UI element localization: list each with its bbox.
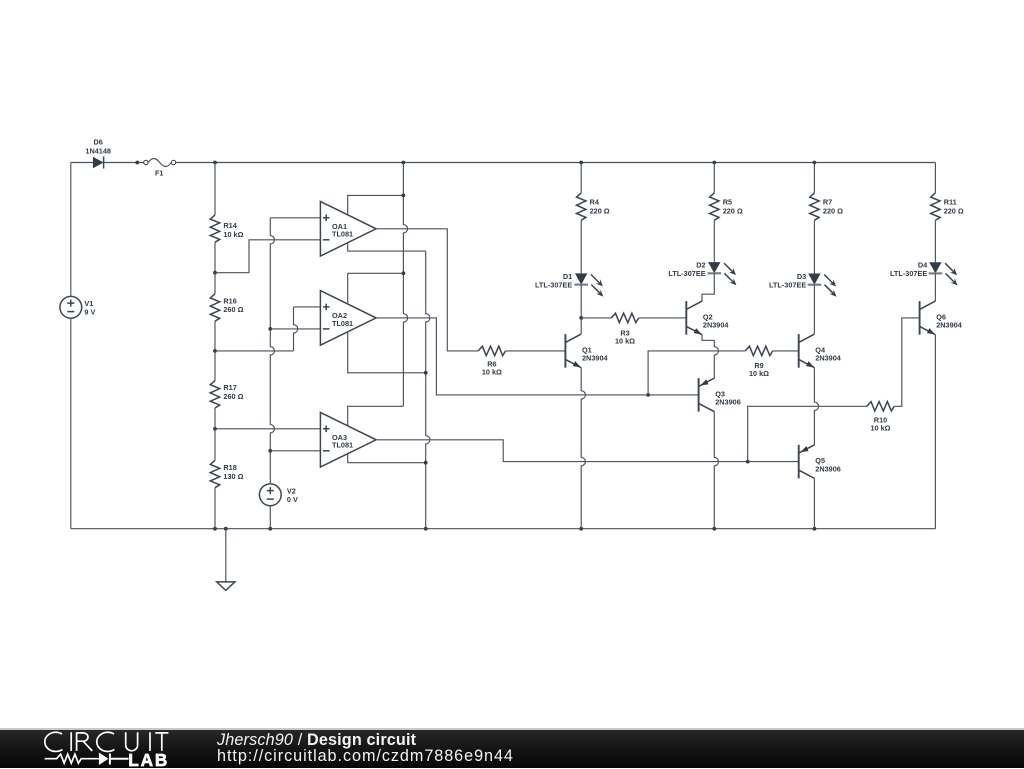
wire bottom rail xyxy=(71,528,936,530)
svg-text:TL081: TL081 xyxy=(332,230,353,239)
wire riser to OA2 + xyxy=(294,306,321,308)
svg-text:V1: V1 xyxy=(84,299,93,308)
svg-text:130 Ω: 130 Ω xyxy=(223,472,243,481)
resistor R9 10k zigzag xyxy=(745,346,772,355)
junction top rail / op-amp V+ bus xyxy=(402,161,406,165)
op-amp OA2 TL081 triangle xyxy=(320,291,376,346)
resistor R10 10k zigzag xyxy=(867,402,894,411)
junction bus / OA3 - xyxy=(268,449,272,453)
wire R18 to bottom rail xyxy=(214,488,216,529)
svg-text:R16: R16 xyxy=(223,296,236,305)
wire bus to OA1 + xyxy=(270,217,320,219)
ground symbol xyxy=(217,529,235,591)
wire op-amp reference bus xyxy=(270,218,274,484)
junction bottom rail / V2 xyxy=(268,527,272,531)
LED D1 triangle xyxy=(575,273,587,284)
LED D4 light arrows xyxy=(945,263,957,285)
wire V2 to bottom rail xyxy=(269,506,271,529)
svg-text:2N3904: 2N3904 xyxy=(815,354,842,363)
junction bus / OA2 - xyxy=(268,327,272,331)
resistor R18 130 zigzag xyxy=(210,460,219,487)
op-amp OA2 + input mark xyxy=(323,304,330,311)
wire OA2 V- pin xyxy=(348,332,426,373)
node C ladder tap 3 xyxy=(213,427,217,431)
svg-text:D6: D6 xyxy=(94,138,103,147)
wire rail to R11 xyxy=(934,163,936,193)
LED D3 triangle xyxy=(808,274,820,285)
svg-text:260 Ω: 260 Ω xyxy=(223,392,243,401)
wire ladder tap2 riser xyxy=(294,307,298,351)
CircuitLab logo xyxy=(0,729,200,769)
wire D3 to Q4 collector xyxy=(813,285,815,334)
svg-text:9 V: 9 V xyxy=(84,308,95,317)
logo schematic doodle wire xyxy=(45,754,99,763)
wire Q3 base branch to R9 xyxy=(648,351,745,395)
svg-text:R7: R7 xyxy=(823,198,832,207)
wire V1 to top rail xyxy=(70,163,72,297)
node A ladder tap 1 xyxy=(213,271,217,275)
svg-text:TL081: TL081 xyxy=(332,319,353,328)
wire Q5 collector to bottom rail xyxy=(813,478,815,528)
svg-text:10 kΩ: 10 kΩ xyxy=(749,369,769,378)
node D1/Q1/R3 xyxy=(579,316,583,320)
wire V1 to bottom rail xyxy=(70,318,72,529)
wire OA1 V+ pin xyxy=(348,195,404,215)
LED D3 cathode bar xyxy=(808,284,822,286)
voltage source V2 0V xyxy=(259,484,281,506)
svg-text:R14: R14 xyxy=(223,221,237,230)
op-amp OA2 - input mark xyxy=(323,328,330,330)
wire rail to R14 xyxy=(214,163,216,215)
resistor R6 10k zigzag xyxy=(478,346,505,355)
wire R5 to D2 xyxy=(713,220,715,262)
op-amp OA1 - input mark xyxy=(323,239,330,241)
LED D4 cathode bar xyxy=(929,272,943,274)
wire rail to R5 xyxy=(713,163,715,193)
junction bottom rail / Q5 collector xyxy=(813,527,817,531)
junction top rail / R4 xyxy=(579,161,583,165)
wire Q6 emitter to bottom rail xyxy=(934,335,936,529)
footer url text xyxy=(217,747,514,766)
op-amp OA1 + input mark xyxy=(323,215,330,222)
svg-text:10 kΩ: 10 kΩ xyxy=(223,230,243,239)
svg-text:220 Ω: 220 Ω xyxy=(944,206,964,215)
footer title text xyxy=(217,731,416,750)
diode D6 1N4148 xyxy=(93,157,104,169)
wire Q5 base branch to R10 xyxy=(748,406,867,461)
wire R3 to Q2 base xyxy=(639,317,687,319)
wire OA3 V+ pin xyxy=(348,406,404,426)
LED D2 triangle xyxy=(708,262,720,273)
op-amp OA3 TL081 triangle xyxy=(320,413,376,468)
wire OA3 V- pin xyxy=(348,454,426,463)
svg-text:R11: R11 xyxy=(944,198,957,207)
svg-text:220 Ω: 220 Ω xyxy=(723,206,743,215)
wire R17 to R18 xyxy=(214,408,216,460)
svg-text:R17: R17 xyxy=(223,383,236,392)
wire OA2 output to Q3 base xyxy=(376,318,698,395)
wire top rail left of D6 xyxy=(71,162,93,164)
junction V+ bus / OA1 xyxy=(402,194,406,198)
svg-text:2N3906: 2N3906 xyxy=(815,464,841,473)
wire Q4 emitter to Q5 emitter xyxy=(814,368,818,445)
node fuse terminal dot xyxy=(135,161,139,165)
wire op-amp V- bus xyxy=(426,251,430,529)
junction Q3 base / R9 branch xyxy=(646,393,650,397)
resistor R7 220 zigzag xyxy=(810,193,819,220)
wire rail to R7 xyxy=(813,163,815,193)
svg-text:R4: R4 xyxy=(590,198,600,207)
svg-text:LTL-307EE: LTL-307EE xyxy=(890,269,927,278)
logo diode symbol xyxy=(99,753,109,766)
wire R16 to R17 xyxy=(214,321,216,380)
LED D1 light arrows xyxy=(591,274,603,296)
footer bar xyxy=(0,728,1024,730)
wire top rail xyxy=(176,162,936,164)
junction bottom rail / R18 xyxy=(213,527,217,531)
resistor R4 220 zigzag xyxy=(577,193,586,220)
LED D3 light arrows xyxy=(824,275,836,297)
wire ladder tap3 to OA3 + xyxy=(215,428,320,430)
wire OA1 output to R6 xyxy=(376,229,478,351)
node B ladder tap 2 xyxy=(213,349,217,353)
wire D1 to Q1 collector xyxy=(580,285,582,335)
wire R14 to R16 xyxy=(214,242,216,293)
resistor R17 260 zigzag xyxy=(210,381,219,408)
wire R7 to D3 xyxy=(813,220,815,273)
voltage source V1 9V xyxy=(60,296,82,318)
wire Q3 collector to bottom rail xyxy=(714,412,718,529)
LED D2 cathode bar xyxy=(708,272,722,274)
wire Q2 emitter jog xyxy=(702,335,714,341)
junction bottom rail / ground stem xyxy=(224,527,228,531)
wire R6 to Q1 base xyxy=(506,350,566,352)
wire R9 to Q4 base xyxy=(773,350,799,352)
svg-text:R18: R18 xyxy=(223,463,236,472)
transistor Q1 2N3904 NPN xyxy=(565,334,581,368)
svg-text:2N3904: 2N3904 xyxy=(703,321,730,330)
transistor Q3 2N3906 PNP xyxy=(699,378,715,412)
resistor R16 260 zigzag xyxy=(210,294,219,321)
svg-text:10 kΩ: 10 kΩ xyxy=(615,336,635,345)
wire rail to R4 xyxy=(580,163,582,193)
junction top rail / R7 xyxy=(813,161,817,165)
svg-text:LTL-307EE: LTL-307EE xyxy=(535,280,572,289)
op-amp OA1 TL081 triangle xyxy=(320,202,376,257)
wire D2 to Q2 collector jog xyxy=(702,273,714,301)
junction V- bus / OA2 xyxy=(424,371,428,375)
wire node to R3 xyxy=(581,317,611,319)
wire ladder tap1 to OA1 - xyxy=(215,240,320,273)
wire bus to OA2 - xyxy=(270,328,320,330)
wire OA1 V- pin xyxy=(348,243,426,251)
svg-text:0 V: 0 V xyxy=(287,495,298,504)
svg-text:10 kΩ: 10 kΩ xyxy=(482,368,502,377)
junction top rail / R14 xyxy=(213,161,217,165)
wire OA3 output to Q5 base xyxy=(376,440,799,462)
resistor R5 220 zigzag xyxy=(710,193,719,220)
wire OA2 V+ pin xyxy=(348,273,404,304)
transistor Q6 2N3904 NPN xyxy=(920,301,936,335)
svg-text:R5: R5 xyxy=(723,198,732,207)
resistor R11 220 zigzag xyxy=(931,193,940,220)
junction V- bus / OA3 xyxy=(424,461,428,465)
transistor Q5 2N3906 PNP xyxy=(799,445,815,479)
junction bottom rail / Q3 collector xyxy=(712,527,716,531)
junction bottom rail / op-amp V- bus xyxy=(424,527,428,531)
wire op-amp V+ bus xyxy=(403,163,407,407)
LED D4 triangle xyxy=(929,262,941,273)
svg-text:220 Ω: 220 Ω xyxy=(590,206,610,215)
junction Q5 base / R10 branch xyxy=(746,460,750,464)
wire R11 to D4 xyxy=(934,220,936,262)
transistor Q4 2N3904 NPN xyxy=(799,334,815,368)
wire R4 to D1 xyxy=(580,220,582,273)
svg-text:V2: V2 xyxy=(287,486,296,495)
svg-text:LAB: LAB xyxy=(128,750,169,769)
svg-text:2N3906: 2N3906 xyxy=(715,398,741,407)
svg-text:F1: F1 xyxy=(155,169,164,178)
svg-text:TL081: TL081 xyxy=(332,441,353,450)
transistor Q2 2N3904 NPN xyxy=(686,301,702,335)
junction V+ bus / OA2 xyxy=(402,271,406,275)
junction top rail / R5 xyxy=(712,161,716,165)
svg-text:2N3904: 2N3904 xyxy=(582,354,609,363)
wire bus to OA3 - xyxy=(270,450,320,452)
logo word CIRCUIT (custom thin strokes) xyxy=(45,732,169,751)
svg-text:2N3904: 2N3904 xyxy=(936,321,963,330)
LED D1 cathode bar xyxy=(574,284,588,286)
wire R10 to Q6 base xyxy=(894,318,919,406)
wire D6 to F1 xyxy=(104,162,144,164)
svg-text:LTL-307EE: LTL-307EE xyxy=(668,269,705,278)
svg-text:10 kΩ: 10 kΩ xyxy=(870,424,890,433)
junction bottom rail / Q1 emitter xyxy=(579,527,583,531)
op-amp OA3 - input mark xyxy=(323,450,330,452)
svg-text:LTL-307EE: LTL-307EE xyxy=(769,280,806,289)
wire Q1 emitter to bottom rail xyxy=(581,368,585,529)
svg-text:220 Ω: 220 Ω xyxy=(823,206,843,215)
wire Q2 emitter down to Q3 emitter xyxy=(714,340,718,378)
fuse F1 xyxy=(144,159,176,167)
op-amp OA3 + input mark xyxy=(323,426,330,433)
LED D2 light arrows xyxy=(724,263,736,285)
wire D4 to Q6 collector xyxy=(934,273,936,301)
svg-text:260 Ω: 260 Ω xyxy=(223,305,243,314)
svg-text:1N4148: 1N4148 xyxy=(85,146,111,155)
resistor R3 10k zigzag xyxy=(611,313,638,322)
resistor R14 10k zigzag xyxy=(210,215,219,242)
wire ladder tap2 horizontal xyxy=(215,350,294,352)
